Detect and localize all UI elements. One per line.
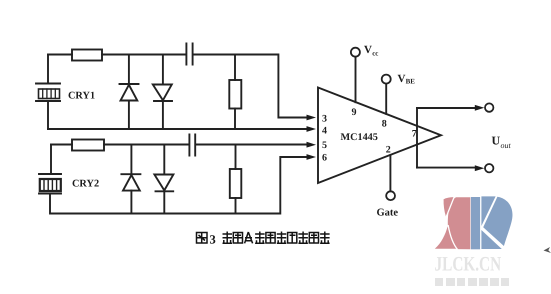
diode D4 — [154, 145, 173, 214]
arrowhead pin3 — [307, 115, 317, 121]
logo blue K lower arm — [481, 230, 501, 249]
caption 图3 带输入保护的门控前放 (drawn glyphs) — [197, 232, 330, 247]
glyph 控 — [298, 232, 308, 244]
terminal Vcc — [351, 48, 360, 57]
wire pin9 to Vcc — [355, 57, 357, 102]
glyph 带 — [223, 232, 233, 244]
wire pin2 to Gate — [389, 155, 391, 191]
op-amp U1 MC1445 triangle — [318, 88, 441, 184]
glyph 保 — [255, 232, 265, 244]
diode D1 — [120, 55, 139, 130]
glyph 前 — [309, 233, 318, 244]
logo pink C disc — [448, 197, 471, 249]
capacitor C1 — [186, 44, 192, 65]
svg-text:7: 7 — [412, 128, 417, 139]
svg-text:2: 2 — [386, 145, 391, 156]
terminal output bottom — [485, 164, 493, 172]
logo pink sail — [435, 226, 457, 249]
arrowhead pin5 — [307, 142, 317, 148]
logo blue K upper arm — [481, 196, 495, 226]
logo pink J beak — [444, 197, 454, 216]
wire ch2 top rail middle segment — [104, 144, 189, 146]
glyph 门 — [288, 233, 297, 244]
wire ch2 bottom rail to pin6 bend — [51, 157, 308, 214]
glyph 图 — [197, 233, 208, 244]
crystal CRY1 — [36, 55, 60, 130]
svg-text:9: 9 — [352, 107, 357, 118]
glyph 放 — [320, 232, 330, 244]
wire ch1 top rail right segment to pin3 bend — [193, 55, 308, 118]
wire output bottom branch — [417, 167, 477, 169]
terminal output top — [485, 103, 493, 111]
svg-text:3: 3 — [322, 114, 327, 125]
logo blue pointer slice — [483, 197, 512, 246]
crystal CRY2 — [39, 145, 61, 214]
wire output vertical — [416, 108, 418, 168]
diode D3 — [121, 145, 140, 214]
svg-text:Gate: Gate — [377, 208, 399, 219]
wire pin8 to Vbe — [385, 84, 387, 114]
svg-text:8: 8 — [382, 118, 387, 129]
svg-text:U: U — [492, 134, 501, 148]
glyph 护 — [266, 233, 275, 244]
watermark logo JLCK — [435, 196, 513, 249]
svg-text:6: 6 — [322, 152, 327, 163]
arrowhead output bottom — [475, 165, 485, 171]
arrowhead pin6 — [307, 154, 317, 160]
svg-text:cc: cc — [372, 50, 378, 58]
diode D2 — [153, 55, 172, 130]
resistor R3 — [72, 140, 104, 151]
terminal Gate — [386, 191, 395, 200]
terminal Vbe — [382, 75, 391, 84]
glyph 的 — [277, 232, 287, 244]
svg-text:4: 4 — [322, 126, 327, 137]
svg-text:3: 3 — [210, 233, 216, 247]
resistor R4 — [230, 145, 242, 214]
svg-text:5: 5 — [322, 140, 327, 151]
svg-text:V: V — [364, 44, 372, 56]
arrowhead output top — [475, 105, 485, 111]
svg-text:MC1445: MC1445 — [341, 132, 378, 143]
arrowhead pin4 — [307, 126, 317, 132]
svg-text:JLCK.CN: JLCK.CN — [435, 253, 502, 275]
small cursor arrow right edge — [544, 247, 551, 253]
logo blue K stem — [471, 197, 480, 249]
wire ch1 bottom rail to pin4 — [48, 128, 308, 130]
svg-text:CRY2: CRY2 — [72, 179, 99, 190]
glyph 入 — [245, 232, 253, 243]
logo pink slit upper — [446, 197, 454, 218]
capacitor C2 — [189, 135, 195, 156]
resistor R1 — [72, 50, 102, 61]
wire ch1 top rail left segment — [48, 54, 72, 56]
svg-text:out: out — [501, 141, 512, 150]
wire ch2 top rail right segment to pin5 — [196, 144, 308, 146]
resistor R2 — [229, 55, 241, 130]
svg-text:BE: BE — [406, 78, 416, 86]
wire output top branch — [417, 107, 477, 109]
glyph 输 — [233, 233, 242, 244]
wire ch1 top rail middle segment — [102, 54, 186, 56]
svg-text:V: V — [398, 73, 406, 85]
watermark chinese line — [435, 278, 509, 286]
wire ch2 top rail left segment — [51, 144, 72, 146]
svg-text:CRY1: CRY1 — [68, 91, 95, 102]
logo pink slit lower — [448, 225, 458, 250]
